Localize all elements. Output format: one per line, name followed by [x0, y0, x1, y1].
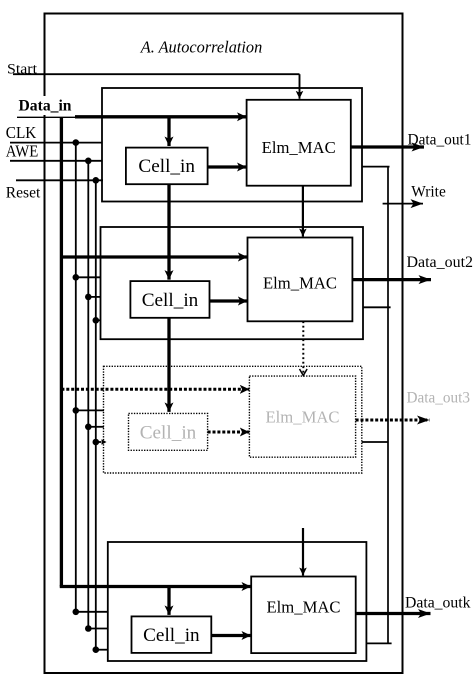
wire Start horizontal: [13, 73, 300, 75]
block Elm_MAC U3 dotted: [249, 376, 355, 457]
wire Start drop into U1: [299, 74, 301, 99]
wire Data_out2: [352, 278, 431, 281]
wire write tee row1: [362, 166, 390, 168]
wire AWE vertical bus: [87, 161, 89, 629]
wire MAC chain into U4: [302, 528, 304, 576]
svg-text:Elm_MAC: Elm_MAC: [262, 138, 336, 157]
wire drop into Cell_in row4: [167, 587, 170, 615]
row2 container box: [101, 227, 364, 339]
wire Reset vertical bus: [95, 180, 97, 649]
wire write tee row4: [366, 642, 391, 644]
svg-text:A. Autocorrelation: A. Autocorrelation: [140, 38, 262, 57]
wire Reset horizontal row1: [16, 179, 103, 181]
block Cell_in row1: [126, 148, 208, 185]
wire Cell_in row4 to U4: [211, 634, 251, 637]
wire Data_in branch row3 dashed: [61, 388, 249, 391]
wire Cell_in row1 to U1: [208, 165, 247, 168]
wire MAC chain U1 to U2: [302, 186, 304, 237]
svg-text:Cell_in: Cell_in: [143, 626, 200, 646]
svg-text:Elm_MAC: Elm_MAC: [263, 274, 337, 293]
junction AWE row3: [85, 424, 92, 431]
junction Reset row2: [93, 317, 100, 324]
block Elm_MAC U4: [251, 577, 356, 654]
wire Data_in thick into U1: [75, 115, 247, 118]
wire CLK horizontal row1: [10, 142, 102, 144]
wire Data_in underline: [17, 116, 78, 118]
junction Reset row1: [93, 177, 100, 184]
wire CLK branch row3: [76, 409, 104, 411]
block Cell_in row3 dotted: [129, 413, 208, 450]
junction Reset row4: [93, 646, 100, 653]
wire CLK vertical bus: [75, 143, 77, 612]
svg-text:Write: Write: [411, 184, 446, 201]
svg-text:Data_out3: Data_out3: [407, 390, 471, 407]
wire write tee row3: [362, 441, 388, 443]
junction AWE row1: [85, 158, 92, 165]
junction CLK row2: [73, 274, 80, 281]
svg-text:Data_out2: Data_out2: [407, 254, 474, 271]
wire AWE branch row3: [88, 426, 104, 428]
wire drop into Cell_in row1: [167, 117, 170, 146]
wire Reset branch row2: [96, 319, 101, 321]
wire Data_in vertical bus: [60, 117, 63, 587]
junction AWE row4: [85, 625, 92, 632]
wire Write output arrow: [383, 203, 423, 205]
wire CLK branch row2: [76, 276, 101, 278]
row1 container box: [102, 88, 362, 202]
svg-text:Elm_MAC: Elm_MAC: [267, 598, 341, 617]
wire Reset branch row4: [96, 649, 108, 651]
block Elm_MAC U2: [248, 238, 353, 322]
block Elm_MAC U1: [247, 100, 351, 186]
wire CLK branch row4: [76, 611, 108, 613]
wire Data_outk: [356, 612, 431, 615]
block Cell_in row4: [132, 616, 212, 653]
svg-text:Data_out1: Data_out1: [408, 132, 472, 149]
svg-text:AWE: AWE: [6, 142, 39, 161]
wire write tee row2: [363, 306, 391, 308]
outer frame box: [45, 14, 403, 674]
wire Cell_in row2 to U2: [210, 299, 248, 302]
junction CLK row4: [73, 609, 80, 616]
svg-text:Cell_in: Cell_in: [142, 291, 199, 311]
wire cell chain row1 to row2: [167, 184, 170, 279]
junction CLK row3: [73, 407, 80, 414]
svg-text:Data_outk: Data_outk: [405, 595, 471, 612]
wire write vertical bus: [387, 167, 389, 644]
junction CLK row1: [73, 139, 80, 146]
row4 container box: [108, 542, 367, 661]
wire Data_in branch row2: [61, 255, 247, 258]
svg-text:Cell_in: Cell_in: [138, 157, 195, 177]
svg-text:CLK: CLK: [6, 123, 37, 142]
svg-text:Data_in: Data_in: [19, 98, 72, 115]
wire AWE branch row4: [88, 628, 108, 630]
wire cell chain row2 to row3: [167, 318, 170, 412]
label Data_in: [16, 96, 77, 115]
wire AWE branch row2: [88, 296, 100, 298]
wire Data_out3 dashed: [356, 419, 430, 422]
wire MAC chain U2 to U3 dotted: [300, 321, 308, 375]
junction Reset row3: [93, 439, 100, 446]
svg-text:Reset: Reset: [6, 184, 41, 201]
block Cell_in row2: [130, 281, 209, 318]
wire Cell_in row3 to U3 dashed: [208, 431, 250, 434]
wire AWE horizontal row1: [10, 160, 102, 162]
wire Data_out1: [351, 145, 424, 148]
svg-text:Cell_in: Cell_in: [140, 423, 197, 443]
wire Reset branch row3: [96, 439, 107, 445]
row3 container box dotted: [104, 366, 362, 473]
wire Data_in branch row4: [61, 585, 251, 587]
junction AWE row2: [85, 294, 92, 301]
svg-text:Elm_MAC: Elm_MAC: [266, 408, 340, 427]
